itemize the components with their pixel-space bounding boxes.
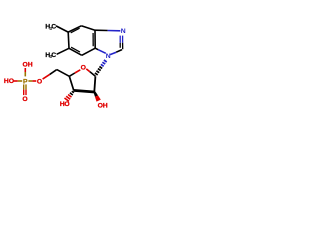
benzene ring edge C4-C5 (double) (68, 26, 81, 33)
svg-text:H: H (28, 62, 33, 69)
bond upper H3C to C5 (56, 26, 68, 32)
bond ring O-C1' (86, 69, 90, 72)
bond P-OH (top) (24, 72, 26, 76)
bond ester O-C5' (43, 74, 50, 79)
bond lower H3C to C6 (57, 48, 69, 54)
ribose edge C4'-C3' (69, 76, 73, 90)
bond P-ester O (28, 80, 32, 82)
svg-text:O: O (81, 65, 86, 72)
ribose edge C1'-C2' (94, 76, 95, 92)
svg-text:O: O (9, 78, 14, 85)
svg-text:C: C (51, 24, 56, 31)
benzene ring fusion edge C3a-C7a (double) (93, 30, 95, 48)
hashed wedge C3'-OH (65, 91, 74, 101)
bond C7a-N1 (95, 48, 98, 50)
P=O double bond (down) (24, 84, 26, 95)
svg-text:O: O (37, 78, 42, 85)
glycosidic hashed bond N1-C1' (alpha) (95, 60, 107, 75)
bond C2-N1 (116, 50, 122, 53)
svg-text:O: O (22, 96, 27, 103)
benzene ring edge C6-C7 (double) (69, 47, 82, 55)
imidazole double bond N3=C2 (120, 36, 123, 50)
benzene ring edge C5-C6 (67, 32, 70, 48)
svg-text:N: N (121, 28, 126, 35)
solid wedge C2'-OH (94, 92, 99, 97)
bond C4'-ring O (69, 73, 75, 76)
solid wedge red tip (95, 95, 101, 101)
benzene ring edge C7-C7a (82, 48, 95, 55)
bond C5'-C4' (57, 70, 70, 77)
ribose bold edge C3'-C2' (73, 90, 94, 92)
benzene ring edge C3a-C4 (81, 26, 95, 30)
bond C3a to N3 (95, 29, 108, 31)
svg-text:H: H (103, 103, 108, 110)
svg-text:C: C (51, 52, 56, 59)
svg-text:N: N (106, 53, 111, 60)
svg-text:P: P (23, 78, 28, 85)
bond HO-P (13, 80, 17, 82)
svg-text:O: O (64, 101, 69, 108)
